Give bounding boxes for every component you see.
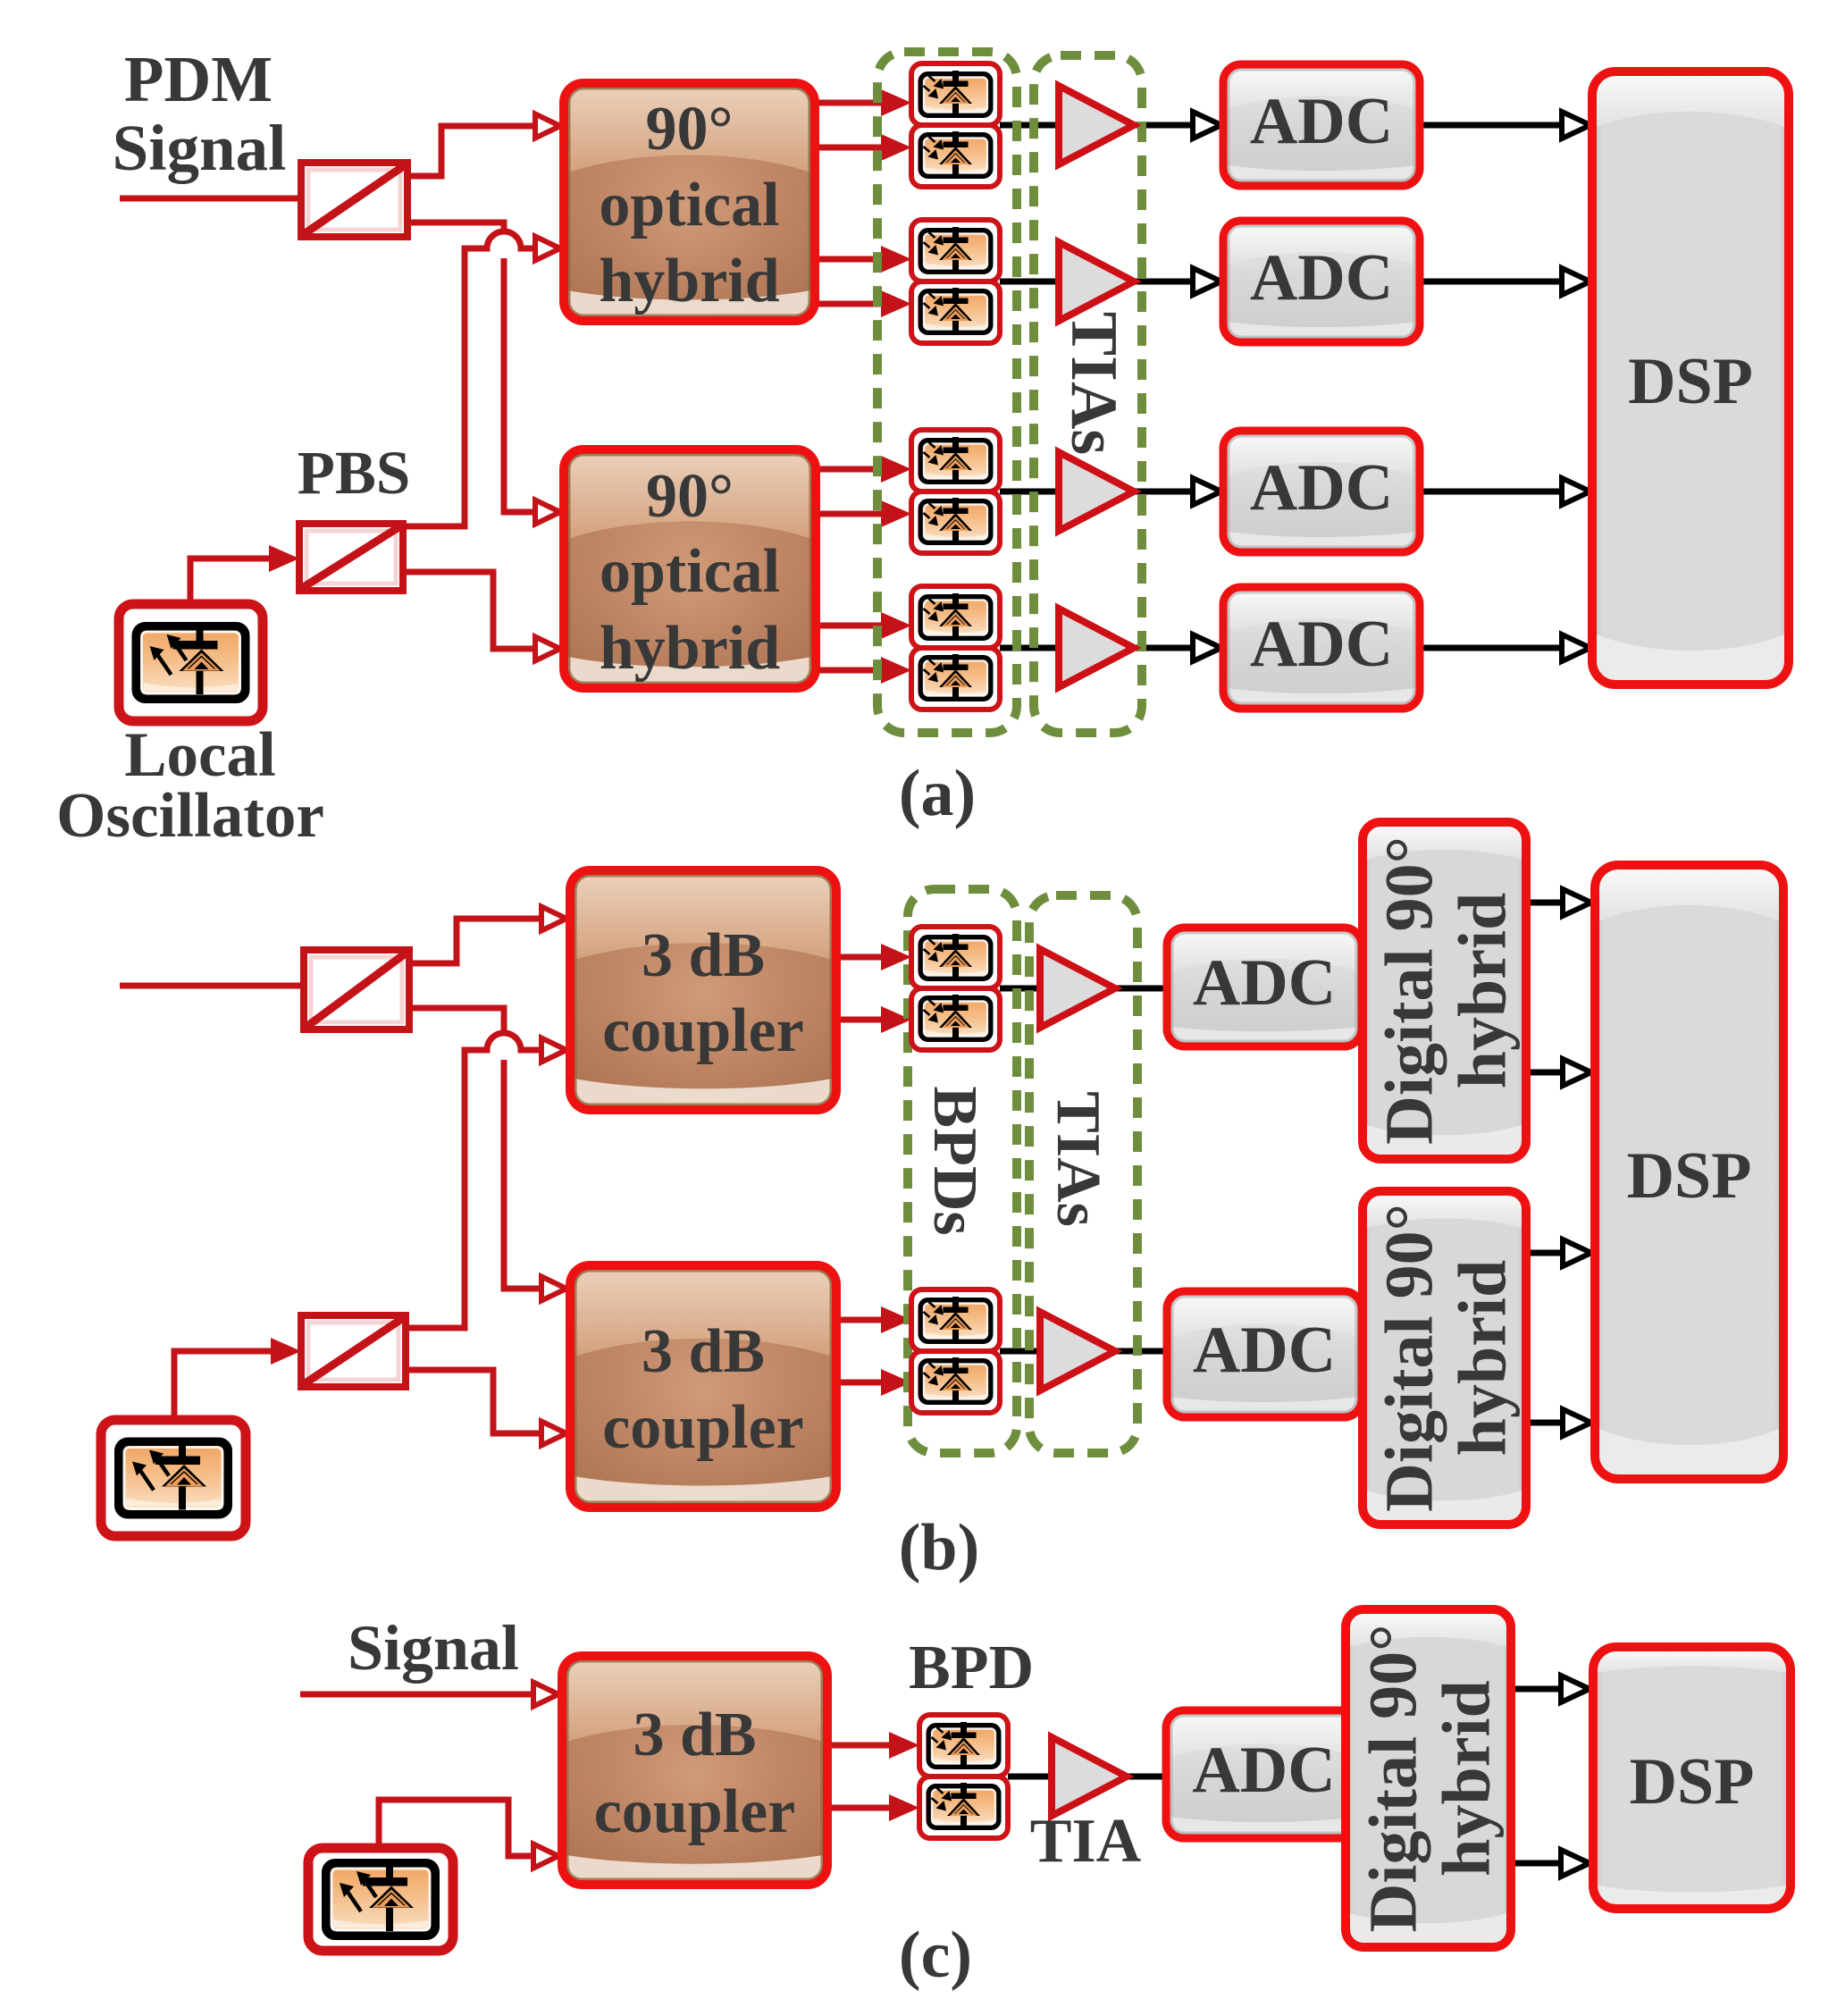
svg-text:hybrid: hybrid: [1446, 893, 1521, 1089]
svg-text:hybrid: hybrid: [1430, 1680, 1505, 1877]
svg-text:BPDs: BPDs: [920, 1086, 989, 1235]
balanced photodiode pair 1 (a): [911, 63, 1000, 187]
wire: PBS1 top output to hybrid1 in1: [404, 126, 536, 176]
svg-text:ADC: ADC: [1250, 451, 1393, 525]
svg-text:hybrid: hybrid: [600, 614, 780, 683]
TIA amplifier 1 (b): [1040, 949, 1115, 1028]
dashed box: photodiode column (a): [877, 52, 1017, 733]
svg-text:(b): (b): [899, 1511, 979, 1584]
svg-text:Digital 90°: Digital 90°: [1356, 1625, 1431, 1933]
arrow into PBS-b2 (solid): [271, 1338, 301, 1365]
wire: LO to PBS2: [190, 559, 277, 608]
svg-text:coupler: coupler: [602, 996, 804, 1065]
wires: coupler outputs to photodiodes (b): [836, 954, 893, 961]
svg-text:Local: Local: [124, 720, 276, 790]
PBS2 polarization beam splitter (LO, a): [299, 524, 403, 591]
wire: PBS-b2 top output up, hop, to coupler1 in2: [498, 1030, 510, 1060]
svg-text:DSP: DSP: [1628, 345, 1753, 418]
svg-text:hybrid: hybrid: [1446, 1260, 1521, 1457]
ADC 2 (b): [1167, 1291, 1362, 1417]
svg-text:ADC: ADC: [1250, 608, 1393, 681]
svg-text:hybrid: hybrid: [599, 247, 779, 315]
arrows into hybrid2: [535, 500, 560, 525]
svg-text:TIAs: TIAs: [1057, 312, 1130, 455]
wire: PDM signal input: [120, 196, 304, 202]
svg-text:3 dB: 3 dB: [642, 921, 765, 990]
wires: digital hybrid outputs to DSP (b, black): [1526, 900, 1573, 906]
svg-text:optical: optical: [599, 171, 779, 239]
ADC (c): [1166, 1710, 1362, 1838]
wires: photodiodes to TIA to ADC (b, black): [1000, 986, 1045, 992]
wires: photodiode pairs to TIAs to ADCs to DSP (black): [1000, 122, 1063, 129]
svg-text:DSP: DSP: [1630, 1745, 1755, 1819]
svg-text:coupler: coupler: [602, 1393, 804, 1462]
wire: signal input (c): [300, 1692, 541, 1698]
svg-text:3 dB: 3 dB: [642, 1317, 765, 1386]
wire: LO to coupler (c): [379, 1800, 541, 1856]
svg-text:90°: 90°: [646, 462, 734, 531]
balanced photodiode pair 2 (b): [911, 1289, 1000, 1413]
svg-text:ADC: ADC: [1192, 1734, 1335, 1807]
box: 3 dB coupler (top, b): [570, 870, 836, 1110]
DSP box (c): [1593, 1647, 1791, 1909]
wire: PBS1 bottom output down to hybrid2 in1: [404, 223, 536, 512]
wires: coupler outputs to photodiodes (c): [827, 1743, 901, 1749]
svg-text:90°: 90°: [646, 95, 734, 164]
digital 90 hybrid (c): [1346, 1609, 1511, 1947]
svg-text:PBS: PBS: [298, 439, 411, 507]
svg-text:Digital 90°: Digital 90°: [1372, 1204, 1447, 1512]
dashed box: TIAs (b): [1029, 895, 1137, 1453]
wire: PBS2 top output up, hop, to hybrid1 in2: [498, 229, 510, 258]
arrows into couplers (open red): [541, 907, 566, 931]
svg-text:coupler: coupler: [594, 1777, 796, 1846]
svg-text:TIA: TIA: [1030, 1807, 1142, 1876]
digital 90 hybrid 1 (b): [1363, 822, 1526, 1159]
TIA amplifier 4 (a): [1059, 609, 1134, 687]
box: 90 optical hybrid (bottom, a): [564, 449, 816, 688]
dashed box: BPDs (b): [908, 889, 1017, 1453]
svg-text:BPD: BPD: [909, 1634, 1034, 1702]
PBS-b1 (signal, b): [304, 950, 409, 1029]
box: 3 dB coupler (c): [562, 1656, 827, 1885]
PBS1 polarization beam splitter (signal, a): [301, 163, 407, 237]
svg-text:(c): (c): [899, 1919, 972, 1992]
dashed box: TIAs column (a): [1034, 55, 1142, 733]
svg-text:Oscillator: Oscillator: [56, 781, 324, 851]
arrows into coupler (c, open red): [533, 1683, 558, 1707]
svg-text:ADC: ADC: [1193, 1314, 1336, 1387]
PBS-b2 (LO, b): [301, 1315, 406, 1387]
ADC 2 (a): [1223, 221, 1420, 342]
svg-text:3 dB: 3 dB: [633, 1701, 756, 1769]
wire: LO to PBS-b2: [174, 1351, 279, 1425]
wire: PBS-b1 top output to coupler1 in1: [406, 919, 542, 963]
arrow into PBS2 (solid): [269, 545, 299, 572]
TIA amplifier 3 (a): [1059, 452, 1134, 531]
wire: photodiodes to TIA to ADC (c, black): [1008, 1774, 1057, 1780]
wire: signal input (b): [120, 983, 306, 989]
svg-text:PDM: PDM: [124, 43, 273, 115]
balanced photodiode pair 3 (a): [911, 430, 1000, 553]
arrows into hybrid1: [535, 114, 560, 139]
box: 3 dB coupler (bottom, b): [570, 1265, 836, 1508]
svg-text:Signal: Signal: [113, 112, 287, 184]
box: 90 optical hybrid (top, a): [564, 83, 815, 321]
wire: PBS-b2 bottom output to coupler2 in2: [402, 1370, 542, 1433]
wire: PBS2 bottom output to hybrid2 in2: [400, 572, 536, 649]
ADC 3 (a): [1223, 431, 1420, 552]
svg-text:ADC: ADC: [1250, 85, 1393, 158]
DSP box (a): [1592, 71, 1789, 685]
TIA amplifier 2 (a): [1059, 242, 1134, 321]
wires: digital hybrid outputs to DSP (c, black): [1511, 1686, 1571, 1693]
svg-text:TIAs: TIAs: [1044, 1091, 1112, 1227]
svg-text:optical: optical: [600, 537, 780, 606]
svg-text:ADC: ADC: [1193, 946, 1336, 1020]
wire: PBS-b1 bottom output to coupler2 in1: [406, 1008, 542, 1289]
digital 90 hybrid 2 (b): [1363, 1191, 1526, 1525]
local oscillator icon (a): [119, 604, 263, 721]
svg-text:Digital 90°: Digital 90°: [1372, 836, 1447, 1145]
TIA amplifier (c): [1052, 1737, 1127, 1816]
local oscillator icon (c): [308, 1848, 453, 1951]
balanced photodiode pair 1 (b): [911, 927, 1000, 1050]
svg-text:ADC: ADC: [1250, 241, 1393, 315]
balanced photodiode pair 2 (a): [911, 220, 1000, 343]
local oscillator icon (b): [101, 1420, 246, 1536]
wires: hybrid outputs to photodiodes: [815, 100, 893, 106]
svg-text:DSP: DSP: [1627, 1139, 1752, 1213]
DSP box (b): [1595, 865, 1783, 1479]
balanced photodiode pair (c): [919, 1715, 1008, 1838]
svg-text:(a): (a): [899, 757, 976, 830]
ADC 4 (a): [1223, 587, 1420, 709]
svg-text:Signal: Signal: [348, 1612, 519, 1684]
TIA amplifier 2 (b): [1040, 1312, 1115, 1390]
ADC 1 (b): [1167, 928, 1362, 1046]
TIA amplifier 1 (a): [1059, 86, 1134, 164]
ADC 1 (a): [1223, 64, 1420, 186]
balanced photodiode pair 4 (a): [911, 586, 1000, 710]
